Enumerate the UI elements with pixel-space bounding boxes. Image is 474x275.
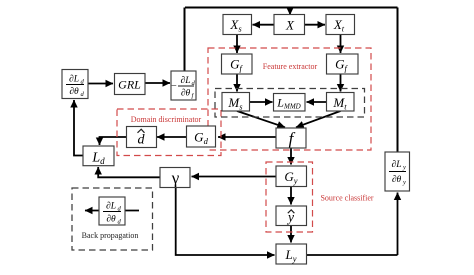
box Gf right xyxy=(327,54,359,74)
wire Ly right to rail xyxy=(307,254,398,256)
box Ly xyxy=(276,244,307,264)
svg-text:γ: γ xyxy=(171,169,180,188)
svg-text:X: X xyxy=(285,18,295,33)
svg-text:∂θ: ∂θ xyxy=(392,175,402,185)
dashed box back propagation xyxy=(72,188,153,250)
wire yhat to Ly xyxy=(290,226,292,243)
dashed box MMD xyxy=(215,89,365,118)
box dhat xyxy=(127,127,157,148)
wire rail up into dLy/dthy xyxy=(397,193,399,256)
wire gamma down to Ly xyxy=(176,188,275,256)
box gamma xyxy=(160,168,190,188)
box Xs xyxy=(223,15,252,35)
svg-text:Source classifier: Source classifier xyxy=(320,194,373,203)
svg-text:Domain discriminator: Domain discriminator xyxy=(131,115,202,124)
wire Xt down to Gf xyxy=(340,34,342,53)
svg-text:∂θ: ∂θ xyxy=(181,89,191,99)
box yhat xyxy=(276,206,307,226)
svg-text:∂L: ∂L xyxy=(181,76,191,86)
wire f to Gy xyxy=(290,148,292,165)
box Lmmd xyxy=(274,94,306,112)
svg-text:∂L: ∂L xyxy=(392,160,402,170)
wire Gy to yhat xyxy=(290,187,292,205)
wire Gf to Mt xyxy=(340,74,342,92)
wire right rail top segment xyxy=(397,8,399,153)
box Gf left xyxy=(222,54,253,74)
wire Xs down to Gf xyxy=(236,34,238,53)
wire arrow into X xyxy=(289,8,291,15)
wire Mt to Lmmd xyxy=(307,101,327,103)
wire Ld up to dLd/dthd xyxy=(74,100,83,156)
svg-text:∂θ: ∂θ xyxy=(106,215,116,225)
box dLd/dthd top-left xyxy=(62,70,88,99)
wire Gy to gamma xyxy=(192,176,277,178)
wire GRL to minus box xyxy=(145,82,170,84)
box Xt xyxy=(326,15,355,35)
svg-text:∂L: ∂L xyxy=(106,202,116,212)
dashed box domain discriminator xyxy=(117,109,221,156)
wire gamma to Ld xyxy=(98,167,160,177)
svg-text:y: y xyxy=(402,179,406,186)
svg-text:−: − xyxy=(171,81,177,92)
svg-text:∂L: ∂L xyxy=(69,75,79,85)
box Mt xyxy=(327,93,355,112)
svg-text:d: d xyxy=(138,133,146,148)
wire Mt to f diagonal xyxy=(296,111,341,127)
box minus dLd/dthf xyxy=(171,71,196,100)
dashed box source classifier xyxy=(266,162,313,232)
box GRL xyxy=(115,74,146,95)
svg-text:GRL: GRL xyxy=(118,78,141,92)
wire top rail xyxy=(185,7,398,9)
wire X to Xs xyxy=(253,24,275,26)
box Gd xyxy=(187,126,216,147)
wire dLd/dthd to GRL xyxy=(88,83,113,85)
box legend dLd/dthd xyxy=(99,197,125,226)
wire Gf to Ms xyxy=(236,74,238,92)
box Gy xyxy=(276,166,307,187)
dashed box feature extractor xyxy=(208,48,371,150)
wire Ms to Lmmd xyxy=(250,101,273,103)
wire dhat to Ld xyxy=(100,137,128,145)
box Ld xyxy=(83,146,114,166)
svg-text:Feature extractor: Feature extractor xyxy=(263,62,318,71)
wire Gd to dhat xyxy=(157,136,186,138)
box f xyxy=(276,128,306,148)
wire f to Gd xyxy=(218,136,276,138)
svg-text:y: y xyxy=(402,164,406,171)
box Ms xyxy=(222,93,250,112)
wire X to Xt xyxy=(305,24,326,26)
box X xyxy=(274,15,305,35)
wire legend arrow xyxy=(85,210,139,212)
wire left rail down to minus box xyxy=(184,8,186,72)
box dLy/dthy right xyxy=(385,152,410,191)
svg-text:Back propagation: Back propagation xyxy=(82,231,139,240)
svg-text:∂θ: ∂θ xyxy=(69,87,79,97)
wire Ms to f diagonal xyxy=(237,111,285,127)
